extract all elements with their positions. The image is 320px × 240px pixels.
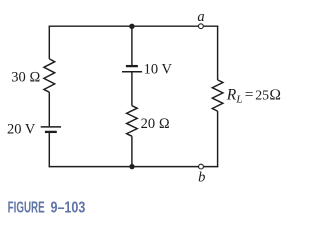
svg-text:a: a <box>197 9 204 25</box>
wire bottom horizontal <box>49 166 219 168</box>
node junction dot top <box>129 24 134 29</box>
wire left top segment <box>48 26 50 59</box>
resistor 30ohm <box>44 59 55 92</box>
battery 10V short plate <box>126 65 138 67</box>
svg-text:10 V: 10 V <box>144 61 173 77</box>
svg-text:RL=25Ω: RL=25Ω <box>226 86 281 105</box>
wire left bottom segment <box>48 133 50 167</box>
wire right top segment <box>217 26 219 80</box>
battery 10V long plate <box>122 71 142 73</box>
wire middle bottom segment <box>131 136 133 166</box>
wire middle middle segment <box>131 72 133 105</box>
resistor 20ohm <box>127 106 138 137</box>
svg-text:FIGURE: FIGURE <box>8 198 45 216</box>
svg-text:20 V: 20 V <box>7 122 36 138</box>
svg-text:9–103: 9–103 <box>51 199 86 217</box>
battery 20V long plate <box>41 126 61 128</box>
resistor RL <box>212 80 223 111</box>
wire top horizontal <box>49 25 219 27</box>
wire right bottom segment <box>217 111 219 167</box>
svg-text:b: b <box>198 169 205 185</box>
svg-text:30 Ω: 30 Ω <box>11 70 40 86</box>
terminal b open circle <box>199 164 204 169</box>
node junction dot bottom <box>129 164 134 169</box>
wire middle top segment <box>131 26 133 65</box>
battery 20V short plate <box>45 131 57 133</box>
svg-text:20 Ω: 20 Ω <box>141 116 170 132</box>
terminal a open circle <box>199 24 204 29</box>
wire left middle segment <box>48 92 50 126</box>
